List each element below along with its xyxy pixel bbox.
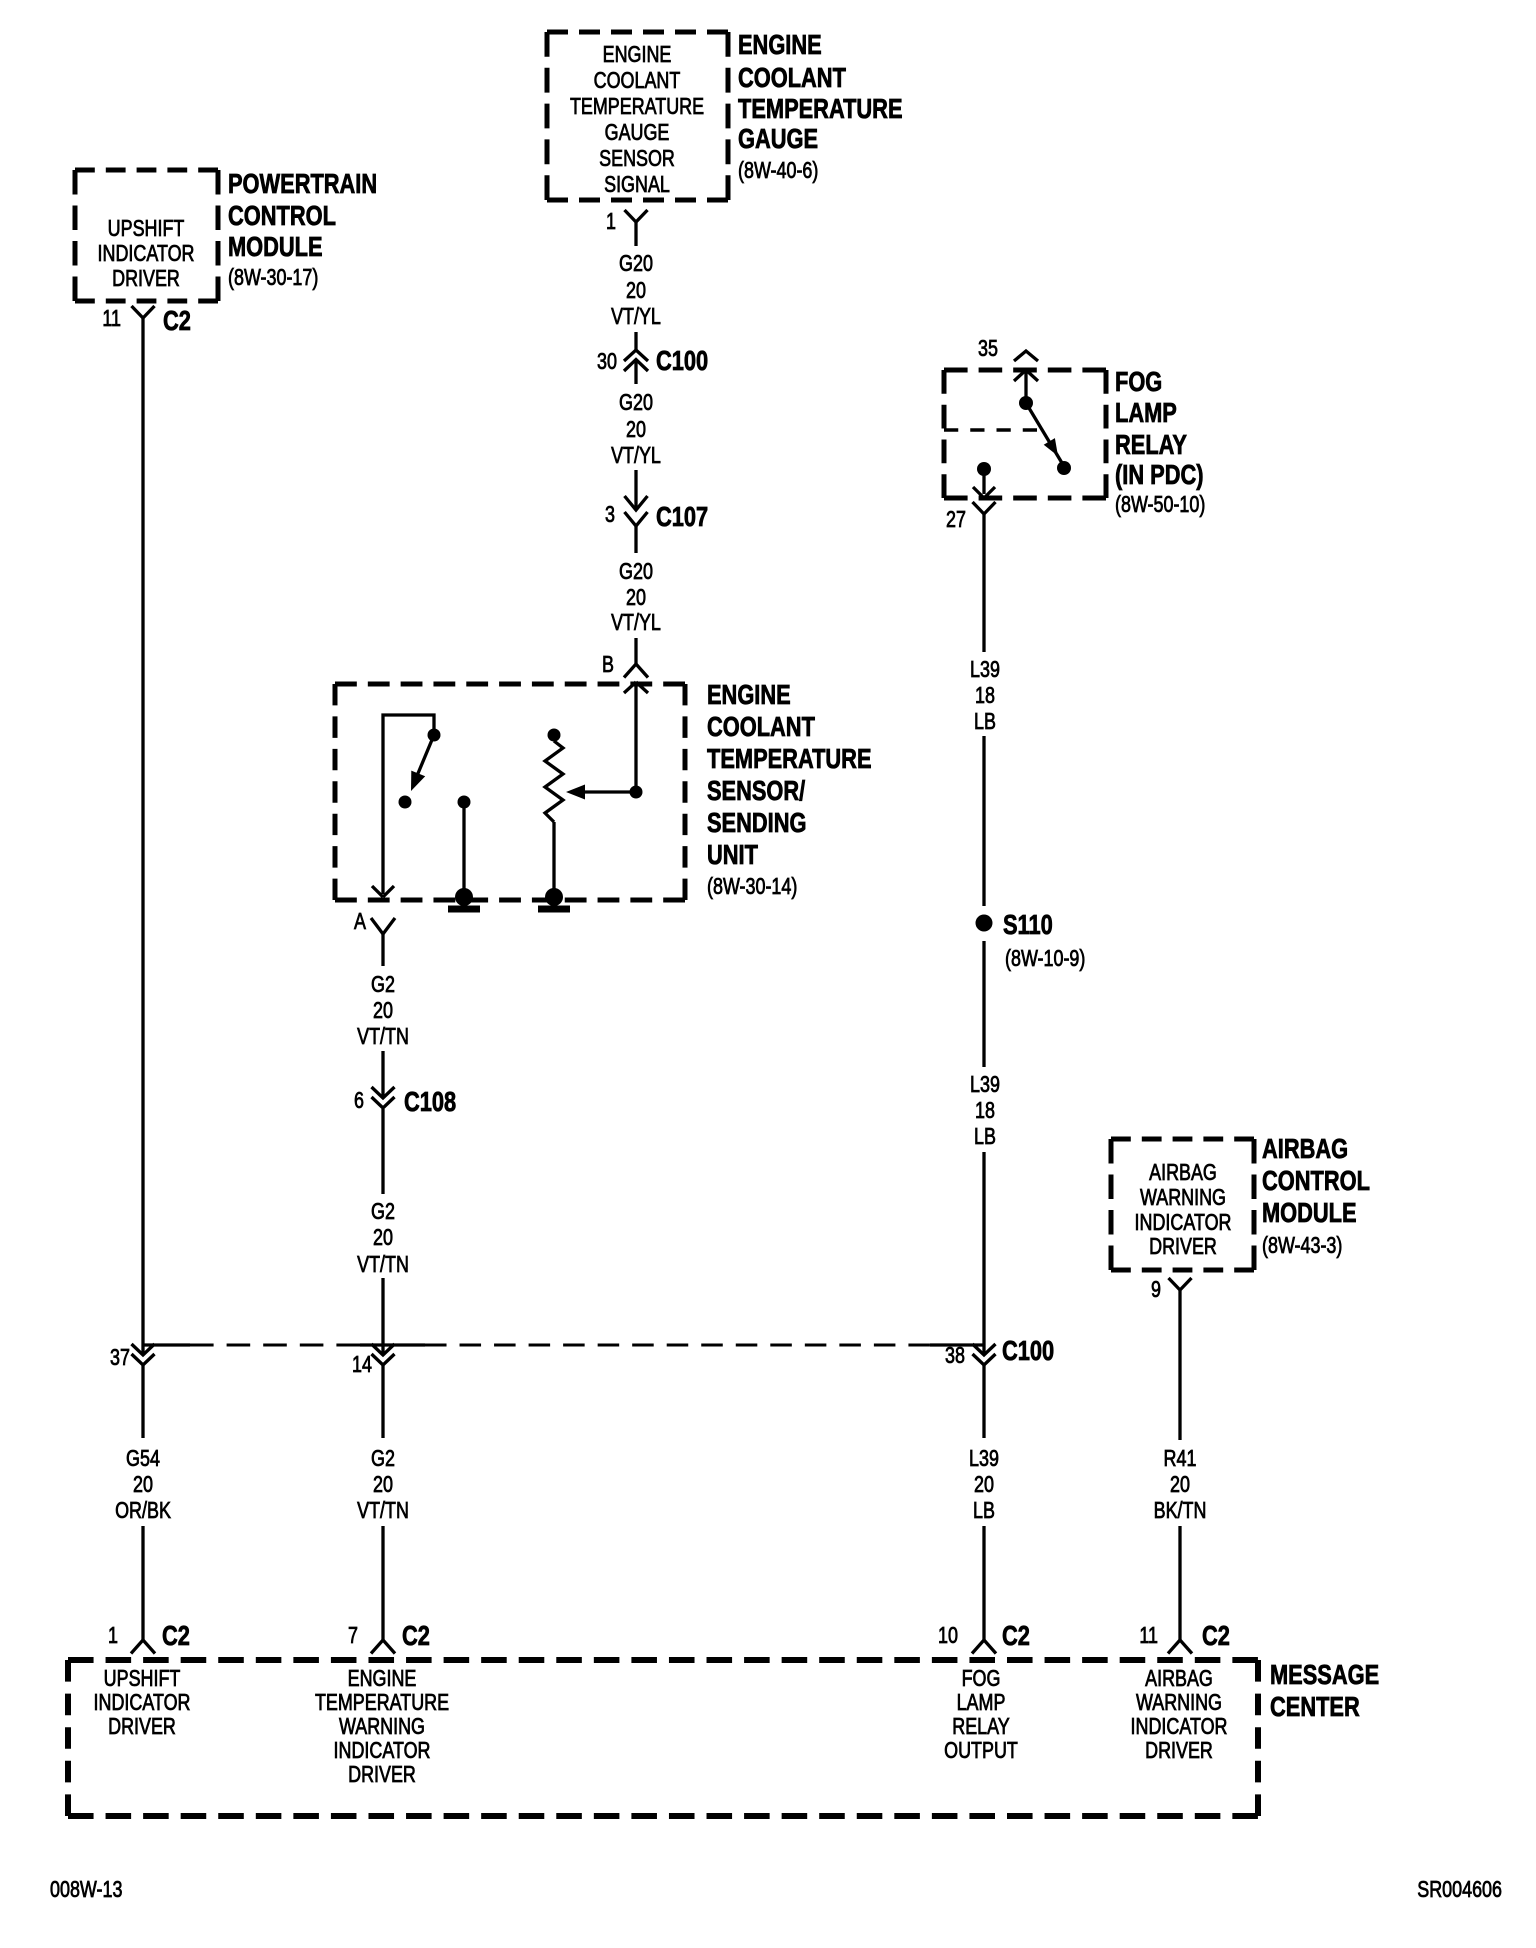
svg-text:L39: L39 bbox=[969, 1446, 999, 1472]
svg-text:20: 20 bbox=[626, 417, 646, 443]
svg-text:TEMPERATURE: TEMPERATURE bbox=[570, 94, 704, 120]
svg-text:008W-13: 008W-13 bbox=[50, 1877, 122, 1903]
svg-text:14: 14 bbox=[352, 1352, 372, 1378]
svg-text:GAUGE: GAUGE bbox=[605, 120, 670, 146]
svg-text:UNIT: UNIT bbox=[707, 839, 759, 870]
svg-text:ENGINE: ENGINE bbox=[707, 679, 791, 710]
svg-text:UPSHIFT: UPSHIFT bbox=[108, 216, 185, 242]
svg-text:18: 18 bbox=[975, 683, 995, 709]
svg-text:(8W-43-3): (8W-43-3) bbox=[1262, 1233, 1342, 1259]
svg-text:SENDING: SENDING bbox=[707, 807, 806, 838]
svg-text:OUTPUT: OUTPUT bbox=[944, 1738, 1018, 1764]
svg-text:WARNING: WARNING bbox=[339, 1714, 425, 1740]
svg-text:DRIVER: DRIVER bbox=[1149, 1234, 1217, 1260]
svg-text:CONTROL: CONTROL bbox=[228, 200, 336, 231]
svg-text:C2: C2 bbox=[1202, 1620, 1230, 1651]
svg-text:6: 6 bbox=[354, 1088, 364, 1114]
svg-text:TEMPERATURE: TEMPERATURE bbox=[738, 93, 903, 124]
svg-text:INDICATOR: INDICATOR bbox=[1135, 1210, 1232, 1236]
svg-text:7: 7 bbox=[348, 1623, 358, 1649]
svg-text:DRIVER: DRIVER bbox=[108, 1714, 176, 1740]
svg-text:18: 18 bbox=[975, 1098, 995, 1124]
svg-text:AIRBAG: AIRBAG bbox=[1262, 1133, 1348, 1164]
svg-text:COOLANT: COOLANT bbox=[594, 68, 681, 94]
svg-text:3: 3 bbox=[605, 502, 615, 528]
svg-text:(8W-40-6): (8W-40-6) bbox=[738, 158, 818, 184]
svg-text:C2: C2 bbox=[402, 1620, 430, 1651]
svg-text:1: 1 bbox=[108, 1623, 118, 1649]
svg-text:L39: L39 bbox=[970, 657, 1000, 683]
svg-text:RELAY: RELAY bbox=[952, 1714, 1010, 1740]
svg-text:FOG: FOG bbox=[962, 1666, 1001, 1692]
svg-text:DRIVER: DRIVER bbox=[1145, 1738, 1213, 1764]
svg-text:POWERTRAIN: POWERTRAIN bbox=[228, 168, 377, 199]
svg-text:G20: G20 bbox=[619, 251, 653, 277]
svg-text:CENTER: CENTER bbox=[1270, 1691, 1360, 1722]
svg-text:MESSAGE: MESSAGE bbox=[1270, 1659, 1379, 1690]
svg-text:C108: C108 bbox=[404, 1086, 456, 1117]
svg-text:COOLANT: COOLANT bbox=[707, 711, 815, 742]
svg-text:R41: R41 bbox=[1164, 1446, 1197, 1472]
svg-text:B: B bbox=[602, 652, 614, 678]
svg-text:LB: LB bbox=[973, 1498, 995, 1524]
svg-text:(8W-30-14): (8W-30-14) bbox=[707, 874, 797, 900]
svg-text:TEMPERATURE: TEMPERATURE bbox=[315, 1690, 449, 1716]
svg-text:S110: S110 bbox=[1003, 909, 1053, 940]
svg-text:G2: G2 bbox=[371, 1446, 395, 1472]
svg-text:20: 20 bbox=[626, 585, 646, 611]
svg-text:C107: C107 bbox=[656, 501, 708, 532]
svg-text:9: 9 bbox=[1151, 1277, 1161, 1303]
svg-text:1: 1 bbox=[606, 209, 616, 235]
svg-text:WARNING: WARNING bbox=[1136, 1690, 1222, 1716]
svg-text:G20: G20 bbox=[619, 390, 653, 416]
svg-text:CONTROL: CONTROL bbox=[1262, 1165, 1370, 1196]
svg-text:SENSOR: SENSOR bbox=[599, 146, 675, 172]
svg-text:C100: C100 bbox=[656, 345, 708, 376]
svg-text:LAMP: LAMP bbox=[1115, 397, 1177, 428]
svg-text:DRIVER: DRIVER bbox=[112, 266, 180, 292]
svg-text:SR004606: SR004606 bbox=[1417, 1877, 1502, 1903]
svg-text:35: 35 bbox=[978, 336, 998, 362]
svg-text:(IN PDC): (IN PDC) bbox=[1115, 459, 1204, 490]
svg-text:C2: C2 bbox=[163, 305, 191, 336]
svg-text:C2: C2 bbox=[162, 1620, 190, 1651]
svg-text:G20: G20 bbox=[619, 559, 653, 585]
svg-text:(8W-30-17): (8W-30-17) bbox=[228, 265, 318, 291]
svg-text:30: 30 bbox=[597, 349, 617, 375]
svg-text:G2: G2 bbox=[371, 972, 395, 998]
svg-text:20: 20 bbox=[626, 278, 646, 304]
svg-text:INDICATOR: INDICATOR bbox=[334, 1738, 431, 1764]
svg-text:11: 11 bbox=[1139, 1623, 1158, 1649]
svg-text:VT/TN: VT/TN bbox=[357, 1252, 409, 1278]
svg-text:20: 20 bbox=[133, 1472, 153, 1498]
svg-text:(8W-10-9): (8W-10-9) bbox=[1005, 946, 1085, 972]
svg-text:10: 10 bbox=[938, 1623, 958, 1649]
svg-text:OR/BK: OR/BK bbox=[115, 1498, 171, 1524]
svg-text:L39: L39 bbox=[970, 1072, 1000, 1098]
svg-text:LAMP: LAMP bbox=[957, 1690, 1006, 1716]
svg-text:LB: LB bbox=[974, 1124, 996, 1150]
svg-text:27: 27 bbox=[946, 507, 966, 533]
svg-text:20: 20 bbox=[373, 1472, 393, 1498]
svg-text:MODULE: MODULE bbox=[1262, 1197, 1357, 1228]
svg-text:G54: G54 bbox=[126, 1446, 160, 1472]
svg-text:UPSHIFT: UPSHIFT bbox=[104, 1666, 181, 1692]
svg-text:20: 20 bbox=[373, 1225, 393, 1251]
svg-text:C2: C2 bbox=[1002, 1620, 1030, 1651]
svg-text:20: 20 bbox=[974, 1472, 994, 1498]
svg-text:VT/TN: VT/TN bbox=[357, 1498, 409, 1524]
svg-text:INDICATOR: INDICATOR bbox=[98, 241, 195, 267]
svg-text:INDICATOR: INDICATOR bbox=[1131, 1714, 1228, 1740]
svg-text:11: 11 bbox=[102, 306, 121, 332]
svg-text:ENGINE: ENGINE bbox=[348, 1666, 417, 1692]
svg-text:VT/YL: VT/YL bbox=[611, 443, 661, 469]
svg-text:INDICATOR: INDICATOR bbox=[94, 1690, 191, 1716]
svg-text:20: 20 bbox=[1170, 1472, 1190, 1498]
svg-text:C100: C100 bbox=[1002, 1335, 1054, 1366]
svg-text:TEMPERATURE: TEMPERATURE bbox=[707, 743, 872, 774]
svg-text:LB: LB bbox=[974, 709, 996, 735]
svg-text:20: 20 bbox=[373, 998, 393, 1024]
svg-text:AIRBAG: AIRBAG bbox=[1145, 1666, 1213, 1692]
svg-text:VT/YL: VT/YL bbox=[611, 610, 661, 636]
svg-text:GAUGE: GAUGE bbox=[738, 123, 818, 154]
svg-text:COOLANT: COOLANT bbox=[738, 62, 846, 93]
svg-text:MODULE: MODULE bbox=[228, 231, 323, 262]
svg-text:A: A bbox=[354, 909, 366, 935]
svg-text:BK/TN: BK/TN bbox=[1154, 1498, 1207, 1524]
svg-text:37: 37 bbox=[110, 1345, 130, 1371]
svg-text:SENSOR/: SENSOR/ bbox=[707, 775, 805, 806]
svg-text:FOG: FOG bbox=[1115, 366, 1162, 397]
svg-text:WARNING: WARNING bbox=[1140, 1185, 1226, 1211]
svg-text:VT/TN: VT/TN bbox=[357, 1024, 409, 1050]
svg-text:(8W-50-10): (8W-50-10) bbox=[1115, 492, 1205, 518]
svg-text:38: 38 bbox=[945, 1343, 965, 1369]
svg-text:ENGINE: ENGINE bbox=[603, 42, 672, 68]
svg-text:RELAY: RELAY bbox=[1115, 429, 1187, 460]
svg-text:ENGINE: ENGINE bbox=[738, 29, 822, 60]
svg-text:SIGNAL: SIGNAL bbox=[604, 172, 670, 198]
svg-text:AIRBAG: AIRBAG bbox=[1149, 1160, 1217, 1186]
svg-text:G2: G2 bbox=[371, 1199, 395, 1225]
svg-text:VT/YL: VT/YL bbox=[611, 304, 661, 330]
svg-text:DRIVER: DRIVER bbox=[348, 1762, 416, 1788]
